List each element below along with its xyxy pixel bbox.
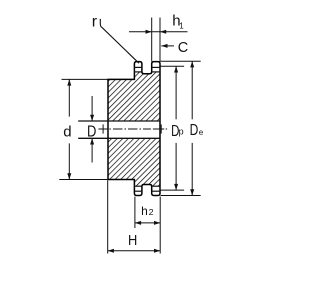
h1 arrowheads: [146, 30, 152, 34]
svg-text:D: D: [87, 123, 96, 140]
h1 dimension: [129, 18, 188, 62]
hatched section lower half: [108, 138, 160, 186]
H arrowheads: [108, 249, 114, 253]
svg-text:2: 2: [149, 208, 155, 217]
De arrowheads: [190, 61, 194, 67]
svg-text:H: H: [128, 232, 137, 249]
centerline: [98, 124, 167, 133]
Dp dimension: [161, 66, 185, 190]
De dimension: [161, 61, 201, 195]
svg-text:h: h: [141, 204, 148, 218]
svg-text:d: d: [63, 123, 71, 140]
C callout: [161, 45, 174, 47]
Dp arrowheads: [174, 66, 178, 72]
C arrowhead: [161, 44, 167, 48]
r leader: [100, 19, 139, 63]
h2 dimension: [135, 197, 160, 254]
svg-text:1: 1: [179, 21, 184, 30]
svg-text:D: D: [190, 122, 199, 139]
svg-text:r: r: [92, 13, 98, 30]
h2 arrowheads: [135, 221, 141, 225]
H dimension: [108, 180, 161, 253]
bore top edge: [78, 120, 160, 122]
sprocket body outline: [108, 62, 160, 196]
D arrowheads: [90, 115, 94, 121]
d dimension: [59, 79, 108, 179]
tooth inner lines top: [134, 67, 160, 191]
svg-text:C: C: [178, 40, 188, 56]
d arrowheads: [67, 79, 71, 85]
svg-text:e: e: [199, 128, 204, 137]
bore bottom edge: [78, 137, 160, 139]
hatched section upper half: [108, 72, 160, 121]
D dimension: [91, 96, 93, 163]
svg-text:p: p: [179, 127, 184, 137]
